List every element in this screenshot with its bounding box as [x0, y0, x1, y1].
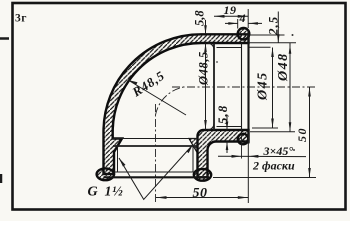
- thread label G 1½ with double leader: [88, 145, 194, 200]
- extension tick at bead base: [237, 19, 239, 29]
- ink speck: [293, 149, 295, 151]
- vertical centerline of bottom socket: [155, 104, 157, 204]
- extension line for Ø48 top: [250, 42, 297, 44]
- mouth chamfer line of right socket: [241, 43, 243, 130]
- svg-text:Ø45: Ø45: [256, 71, 271, 101]
- svg-text:2,5: 2,5: [266, 16, 281, 36]
- thread end line (shoulder) of right socket: [213, 43, 215, 130]
- bead at bottom rim of right socket: [238, 134, 249, 145]
- extension line for Ø45 top: [250, 46, 271, 48]
- svg-text:1½: 1½: [105, 185, 124, 200]
- dimension 2,5: [266, 12, 281, 43]
- dimension 5,8 (bottom wall thickness): [215, 105, 230, 153]
- svg-text:G: G: [88, 185, 98, 200]
- bead at top rim of right socket: [238, 28, 250, 40]
- page edge marks: [0, 39, 9, 184]
- thread root line, right socket top: [217, 47, 242, 49]
- curved channel centerline arc: [156, 87, 184, 115]
- fillet at bottom shoulder corner: [208, 124, 215, 131]
- svg-text:3г: 3г: [15, 13, 27, 25]
- svg-text:5,8: 5,8: [215, 105, 230, 124]
- thread root line, right socket bottom: [217, 126, 242, 128]
- svg-text:50: 50: [193, 186, 208, 201]
- elbow body upper section: left wall, outer bend arc band, top wall of right socket: [104, 34, 249, 174]
- thread root line, bottom socket left wall: [117, 146, 119, 172]
- bead at right rim of bottom socket: [194, 169, 211, 181]
- fillet at top shoulder corner: [208, 43, 215, 50]
- dimension Ø45 (thread minor diameter): [256, 48, 274, 129]
- ink speck: [292, 34, 294, 36]
- dimension 50 bottom (axis to right face): [156, 186, 248, 201]
- thread end line (shoulder) of bottom socket: [113, 145, 198, 147]
- chamfer notch at right side of bottom socket shoulder: [189, 139, 198, 153]
- horizontal centerline of right socket: [172, 86, 316, 88]
- dimension Ø48,5 (bend outer diameter): [197, 43, 211, 130]
- elbow body lower section: bottom wall of right socket, inner corner, right wall of bottom socket: [198, 130, 249, 177]
- svg-text:19: 19: [224, 3, 237, 17]
- chamfer line extension below right socket mouth: [241, 130, 243, 159]
- thread root line, bottom socket right wall: [192, 146, 194, 172]
- dimension 19 (socket depth): [214, 3, 248, 18]
- extension line at outer top surface y=35: [250, 34, 285, 36]
- dimension 50 right (axis to bottom face): [295, 87, 311, 178]
- ink speck: [216, 61, 218, 63]
- radius leader R48,5: [128, 68, 186, 115]
- extension line at right socket face: [247, 9, 249, 28]
- bottom socket end face: [104, 176, 210, 178]
- dimension 4 (bead width): [225, 11, 262, 25]
- svg-text:Ø48,5: Ø48,5: [197, 51, 211, 86]
- right socket end face: [247, 30, 249, 144]
- svg-text:3×45°: 3×45°: [263, 144, 294, 158]
- mouth chamfer line of bottom socket: [114, 171, 198, 173]
- extension line for Ø48 bottom: [250, 131, 295, 133]
- dimension Ø48 (thread major diameter): [276, 43, 291, 132]
- svg-text:Ø48: Ø48: [276, 52, 291, 82]
- extension line from face down to 50 dimension: [247, 134, 249, 203]
- chamfer note 3×45° / 2 фаски: [218, 144, 306, 173]
- extension line for Ø45 bottom: [252, 127, 278, 129]
- shoulder upper line of bottom socket: [113, 138, 198, 140]
- svg-text:50: 50: [295, 127, 309, 142]
- svg-text:2 фаски: 2 фаски: [252, 159, 295, 173]
- svg-text:4: 4: [239, 11, 246, 25]
- dimension 5,8 (top wall thickness): [193, 10, 207, 35]
- bead at left rim of bottom socket: [97, 168, 114, 180]
- extension line at bottom socket face level: [213, 177, 316, 179]
- svg-text:5,8: 5,8: [193, 10, 207, 26]
